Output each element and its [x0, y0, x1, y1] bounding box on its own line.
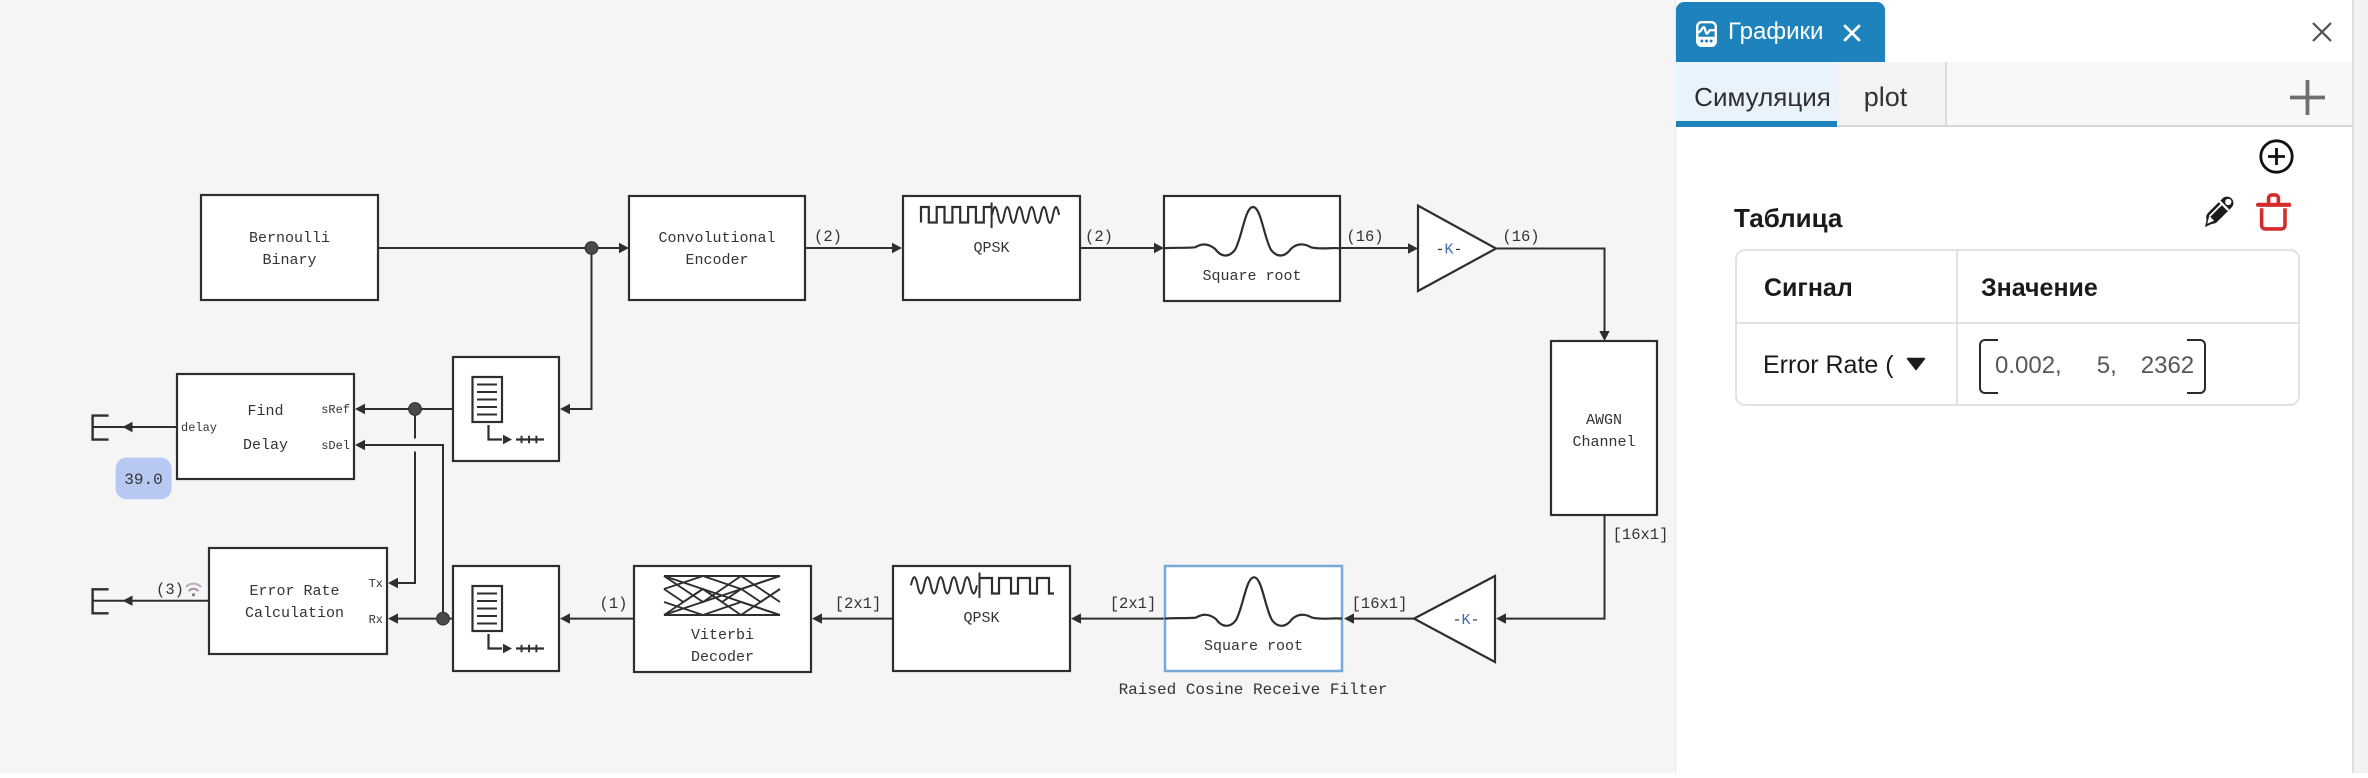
svg-text:(1): (1) [600, 595, 628, 613]
svg-text:Rx: Rx [369, 613, 383, 627]
svg-text:Raised Cosine Receive Filter: Raised Cosine Receive Filter [1119, 681, 1388, 699]
svg-text:delay: delay [181, 421, 217, 435]
svg-text:Square root: Square root [1204, 638, 1303, 655]
svg-text:(3): (3) [156, 581, 184, 599]
svg-text:Bernoulli: Bernoulli [249, 230, 330, 247]
svg-text:Viterbi: Viterbi [691, 627, 754, 644]
svg-text:AWGN: AWGN [1586, 412, 1622, 429]
svg-text:Decoder: Decoder [691, 649, 754, 666]
svg-text:-K-: -K- [1452, 612, 1479, 629]
svg-text:QPSK: QPSK [963, 610, 999, 627]
svg-text:(2): (2) [1085, 228, 1113, 246]
svg-text:[2x1]: [2x1] [835, 595, 882, 613]
svg-text:Error Rate: Error Rate [249, 583, 339, 600]
svg-text:39.0: 39.0 [124, 471, 162, 489]
svg-text:sDel: sDel [321, 439, 350, 453]
svg-text:-K-: -K- [1435, 242, 1462, 259]
svg-text:QPSK: QPSK [973, 240, 1009, 257]
svg-text:[16x1]: [16x1] [1613, 526, 1669, 544]
svg-text:Convolutional: Convolutional [658, 230, 775, 247]
svg-text:Encoder: Encoder [685, 252, 748, 269]
svg-text:(16): (16) [1346, 228, 1383, 246]
svg-text:sRef: sRef [321, 403, 350, 417]
svg-text:[2x1]: [2x1] [1110, 595, 1157, 613]
svg-text:Tx: Tx [369, 577, 383, 591]
svg-text:[16x1]: [16x1] [1352, 595, 1408, 613]
svg-text:Binary: Binary [262, 252, 316, 269]
svg-text:Channel: Channel [1572, 434, 1635, 451]
svg-text:Find: Find [247, 403, 283, 420]
svg-text:Delay: Delay [243, 437, 288, 454]
svg-text:(16): (16) [1502, 228, 1539, 246]
svg-text:Square root: Square root [1202, 268, 1301, 285]
svg-text:Calculation: Calculation [245, 605, 344, 622]
svg-text:(2): (2) [814, 228, 842, 246]
